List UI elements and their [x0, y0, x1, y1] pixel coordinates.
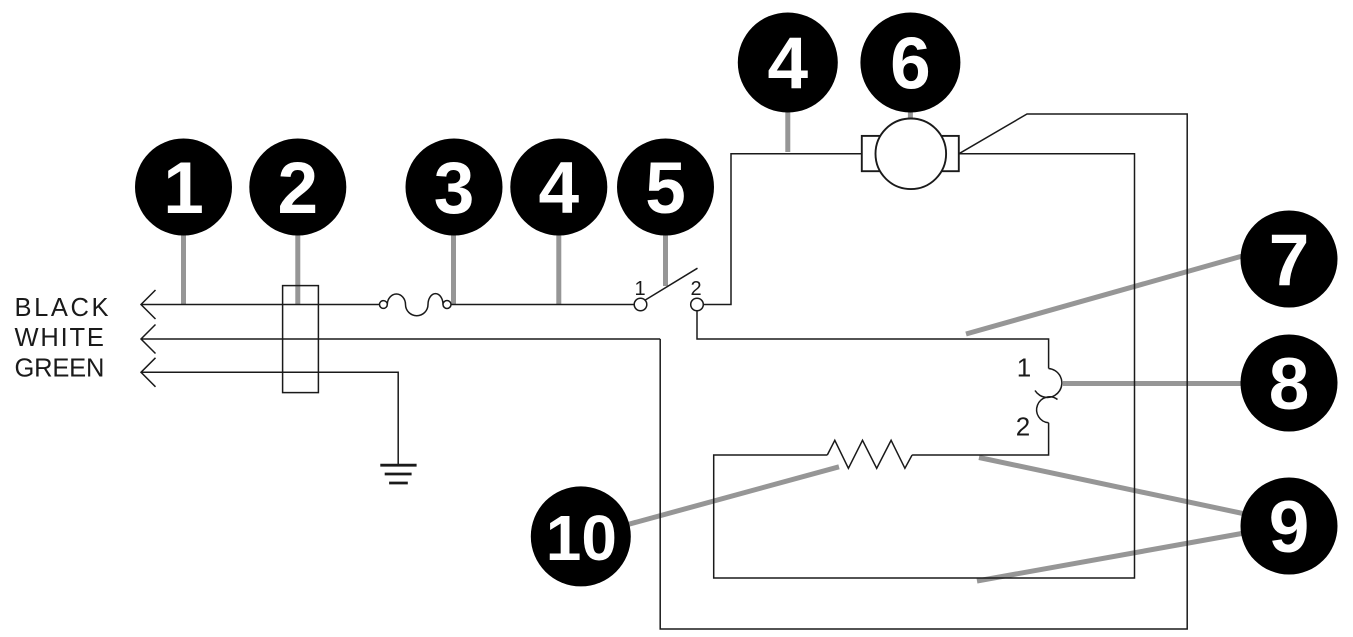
- callout stem 4 top: [785, 108, 790, 152]
- wire black lead with arrowhead: [141, 290, 380, 319]
- callout stem 2: [295, 232, 300, 305]
- thermostat TH1 upper contact arc: [1035, 369, 1062, 398]
- callout leader 8: [1063, 381, 1250, 386]
- thermostat TH1 lower contact arc: [1037, 397, 1058, 423]
- callout circle 3: [406, 139, 503, 236]
- wire outer loop (white return): [660, 114, 1187, 629]
- callout circle 5: [617, 139, 714, 236]
- callout leader 7: [966, 253, 1253, 334]
- svg-text:2: 2: [277, 148, 318, 229]
- wire white lead with arrowhead: [141, 325, 660, 354]
- wire switch terminal 2 to motor: [703, 154, 862, 305]
- ground symbol: [380, 465, 416, 483]
- callout circle 9: [1241, 478, 1338, 575]
- motor M1 circle: [876, 119, 947, 190]
- callout circle 7: [1241, 211, 1338, 308]
- svg-text:4: 4: [767, 24, 808, 105]
- svg-text:4: 4: [538, 148, 579, 229]
- svg-text:2: 2: [1016, 411, 1030, 441]
- wire motor to heater loop (inner loop): [714, 154, 1135, 578]
- callout stem 5: [663, 232, 668, 286]
- callout stem 3: [451, 232, 456, 305]
- svg-text:3: 3: [434, 148, 475, 229]
- callout leader 9b: [977, 532, 1250, 581]
- svg-text:7: 7: [1269, 220, 1310, 301]
- strain relief bushing: [283, 286, 319, 393]
- fuse F1: [380, 294, 452, 316]
- wire heater to thermostat: [912, 423, 1049, 455]
- callout stem 6: [908, 108, 913, 120]
- svg-text:9: 9: [1269, 487, 1310, 568]
- switch S1 blade: [645, 268, 697, 300]
- callout circle 6: [860, 13, 960, 113]
- svg-text:2: 2: [690, 278, 701, 300]
- switch S1 terminal 1: [634, 298, 647, 311]
- wire thermostat to switch terminal 2: [697, 311, 1049, 369]
- wire fuse to switch: [451, 304, 634, 306]
- svg-text:1: 1: [163, 148, 204, 229]
- svg-text:GREEN: GREEN: [15, 355, 105, 383]
- motor M1 body rectangle: [862, 136, 959, 171]
- svg-text:8: 8: [1269, 344, 1310, 425]
- svg-text:1: 1: [634, 278, 645, 300]
- svg-text:5: 5: [645, 148, 686, 229]
- callout stem 4: [556, 232, 561, 305]
- callout circle 4 top: [738, 13, 838, 113]
- svg-text:BLACK: BLACK: [15, 294, 112, 322]
- callout stem 1: [181, 232, 186, 305]
- callout leader 10: [626, 467, 839, 525]
- callout circle 2: [249, 139, 346, 236]
- svg-text:10: 10: [546, 502, 617, 574]
- callout leader 9a: [979, 458, 1250, 516]
- callout circle 4: [510, 139, 607, 236]
- switch S1 terminal 2: [691, 298, 704, 311]
- svg-text:WHITE: WHITE: [15, 324, 106, 352]
- wire green lead with arrowhead: [141, 358, 398, 465]
- resistor heating element: [827, 440, 912, 468]
- callout circle 8: [1241, 335, 1338, 432]
- callout circle 10: [531, 486, 631, 586]
- callout circle 1: [135, 139, 232, 236]
- svg-text:1: 1: [1017, 352, 1031, 382]
- svg-text:6: 6: [890, 24, 931, 105]
